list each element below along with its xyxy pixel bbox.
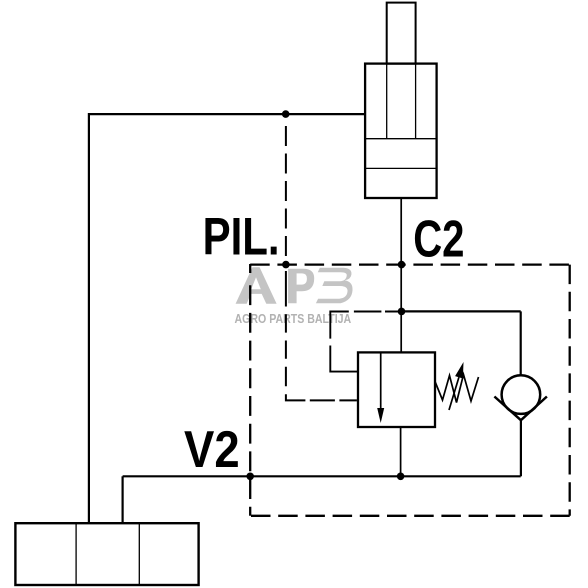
svg-text:PIL.: PIL. bbox=[203, 207, 280, 266]
svg-text:AGRO PARTS BALTIJA: AGRO PARTS BALTIJA bbox=[235, 311, 352, 326]
svg-text:C2: C2 bbox=[413, 211, 464, 269]
svg-text:V2: V2 bbox=[184, 420, 240, 478]
